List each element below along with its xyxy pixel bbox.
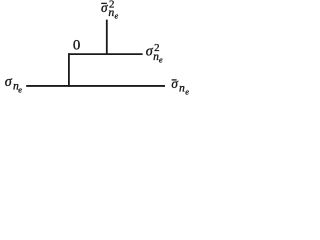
- wire: right vertical line up to sigma-bar^2 label: [106, 20, 108, 55]
- node label sigma^2_ne (right end of middle line): [146, 42, 163, 64]
- svg-text:e: e: [115, 12, 119, 21]
- svg-text:σ: σ: [171, 76, 178, 91]
- svg-text:e: e: [18, 85, 22, 94]
- svg-text:e: e: [159, 56, 163, 65]
- node label sigma_ne (left end): [5, 74, 23, 94]
- svg-text:σ: σ: [101, 0, 108, 15]
- node label sigma-bar_ne (right end): [171, 76, 189, 96]
- node label sigma-bar^2_ne (top): [101, 0, 119, 20]
- wire: bottom horizontal axis from sigma_ne to sigma-bar_ne: [26, 85, 165, 87]
- svg-text:n: n: [108, 6, 114, 19]
- svg-text:n: n: [179, 82, 185, 95]
- svg-text:e: e: [185, 87, 189, 96]
- wire: left vertical step: [68, 53, 70, 87]
- svg-text:σ: σ: [5, 74, 13, 90]
- wire: middle horizontal level line: [68, 53, 143, 55]
- svg-text:0: 0: [73, 38, 80, 54]
